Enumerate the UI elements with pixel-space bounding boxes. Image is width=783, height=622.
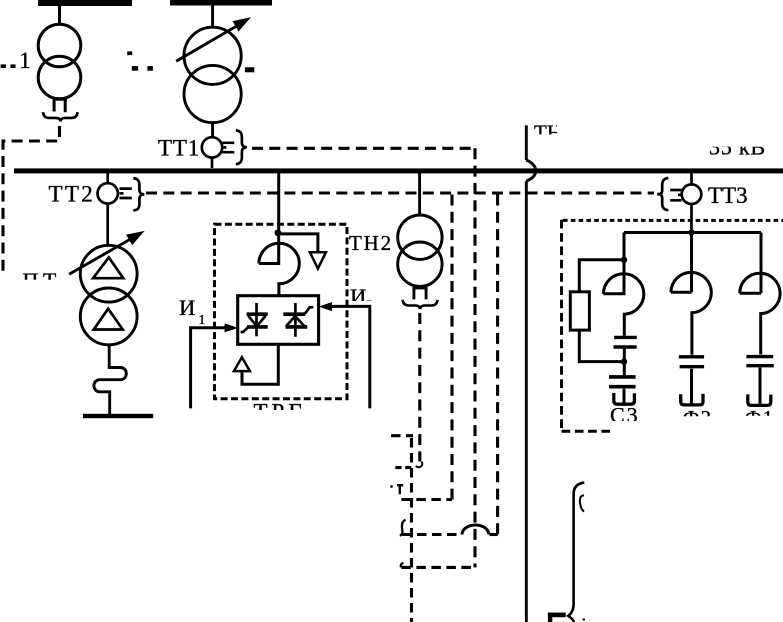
svg-text:ТН2: ТН2	[349, 231, 393, 255]
svg-text:И: И	[179, 295, 195, 320]
svg-text:ТТ3: ТТ3	[708, 183, 748, 208]
svg-text:1: 1	[19, 48, 31, 73]
svg-text:1: 1	[199, 312, 206, 327]
svg-text:ТТ1: ТТ1	[158, 135, 200, 160]
svg-text:ТТ2: ТТ2	[49, 182, 96, 207]
